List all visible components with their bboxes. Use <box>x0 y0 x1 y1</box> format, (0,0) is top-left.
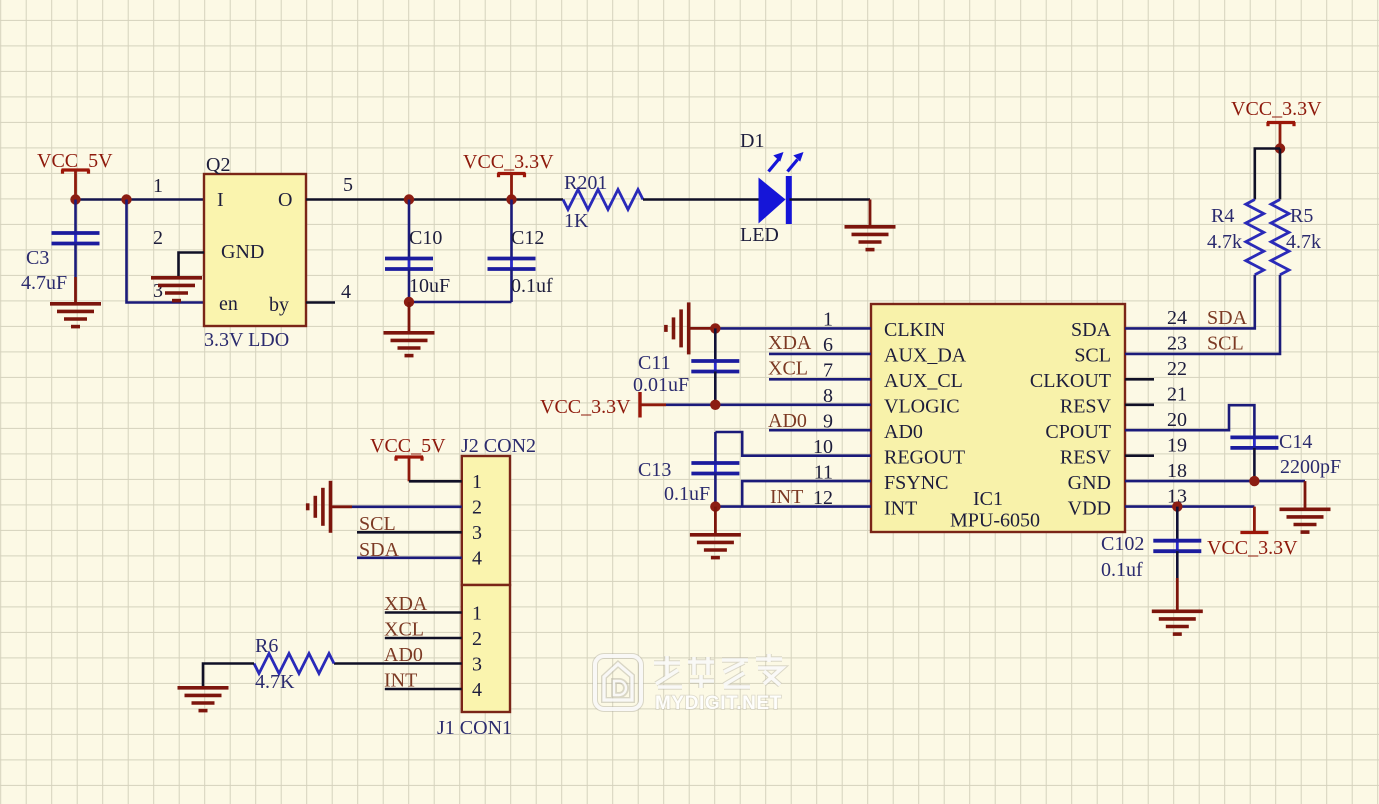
wire J2 pin1 to VCC_5V <box>409 480 462 483</box>
svg-text:AD0: AD0 <box>768 410 807 432</box>
svg-text:VCC_3.3V: VCC_3.3V <box>540 396 631 418</box>
svg-text:10uF: 10uF <box>409 275 450 297</box>
wire IC pin9 AD0 stub <box>769 429 871 432</box>
svg-text:J2 CON2: J2 CON2 <box>461 435 536 457</box>
svg-text:D1: D1 <box>740 130 764 152</box>
svg-text:3: 3 <box>153 280 163 302</box>
wire Q2 pin4 stub (by) <box>306 301 335 304</box>
capacitor C13 <box>638 432 739 507</box>
svg-text:VCC_3.3V: VCC_3.3V <box>1207 537 1298 559</box>
svg-text:REGOUT: REGOUT <box>884 447 965 469</box>
svg-text:INT: INT <box>884 498 917 520</box>
wire R5 bottom to IC pin23 SCL <box>1125 275 1280 354</box>
svg-text:I: I <box>217 189 224 211</box>
svg-text:4.7k: 4.7k <box>1286 231 1321 253</box>
junction node at enable branch <box>121 194 131 204</box>
svg-text:2: 2 <box>472 497 482 519</box>
svg-text:SCL: SCL <box>1207 333 1244 355</box>
svg-text:20: 20 <box>1167 409 1187 431</box>
svg-text:3.3V LDO: 3.3V LDO <box>204 329 289 351</box>
wire R201 to LED anode <box>643 198 759 201</box>
svg-text:MYDIGIT.NET: MYDIGIT.NET <box>655 693 782 714</box>
svg-text:VDD: VDD <box>1068 498 1111 520</box>
power flag VCC_5V (top left) <box>37 150 113 200</box>
svg-text:VCC_3.3V: VCC_3.3V <box>463 151 554 173</box>
svg-text:R4: R4 <box>1211 205 1234 227</box>
svg-text:5: 5 <box>343 174 353 196</box>
svg-text:0.1uf: 0.1uf <box>511 275 553 297</box>
junction node at C3 top <box>70 194 80 204</box>
power flag VCC_3.3V (top right) <box>1231 98 1322 149</box>
junction node at C102 top <box>1172 501 1182 511</box>
svg-text:SDA: SDA <box>1071 319 1112 341</box>
wire Q2 pin5 output rail to R201 <box>306 198 563 201</box>
svg-text:2: 2 <box>153 227 163 249</box>
svg-text:C3: C3 <box>26 247 49 269</box>
svg-text:CPOUT: CPOUT <box>1045 421 1111 443</box>
wire joining C10 and C12 bottoms <box>409 301 512 304</box>
svg-text:J1 CON1: J1 CON1 <box>437 717 512 739</box>
wire R6 left to ground <box>203 664 254 688</box>
wire IC pin20 CPOUT to C14 <box>1125 405 1254 437</box>
svg-text:23: 23 <box>1167 333 1187 355</box>
svg-text:C11: C11 <box>638 352 671 374</box>
svg-text:RESV: RESV <box>1060 396 1112 418</box>
svg-text:C102: C102 <box>1101 533 1144 555</box>
svg-text:Q2: Q2 <box>206 154 230 176</box>
svg-text:LED: LED <box>740 224 779 246</box>
svg-text:4: 4 <box>472 679 482 701</box>
svg-text:4: 4 <box>472 548 482 570</box>
svg-text:RESV: RESV <box>1060 447 1112 469</box>
svg-text:C13: C13 <box>638 459 671 481</box>
power flag VCC_3.3V at VDD (pointing down) <box>1207 507 1298 559</box>
resistor R5 4.7k <box>1271 200 1321 275</box>
ground at Q2 pin2 <box>151 278 202 301</box>
svg-text:1: 1 <box>472 471 482 493</box>
wire J1 pin4 INT <box>385 688 462 691</box>
wire J2 pin3 SCL <box>357 531 462 534</box>
ground at J2 pin2 (sideways) <box>308 481 352 533</box>
svg-text:2200pF: 2200pF <box>1280 456 1341 478</box>
svg-text:CLKIN: CLKIN <box>884 319 945 341</box>
wire IC pin13 VDD <box>1125 505 1254 508</box>
svg-text:VLOGIC: VLOGIC <box>884 396 960 418</box>
ground below R6 <box>178 688 229 711</box>
svg-text:0.1uF: 0.1uF <box>664 483 710 505</box>
svg-text:SCL: SCL <box>1074 345 1111 367</box>
junction node at C11 top <box>710 323 720 333</box>
ground below C13 <box>690 507 741 558</box>
svg-text:1: 1 <box>153 175 163 197</box>
junction node at C11 bottom <box>710 400 720 410</box>
power flag VCC_5V (above J2) <box>370 435 446 481</box>
svg-text:4.7uF: 4.7uF <box>21 272 67 294</box>
svg-text:AUX_DA: AUX_DA <box>884 345 967 367</box>
svg-text:22: 22 <box>1167 358 1187 380</box>
junction node at C10 <box>404 194 414 204</box>
svg-text:2: 2 <box>472 628 482 650</box>
resistor R6 4.7K <box>254 635 334 693</box>
capacitor C11 <box>633 328 739 404</box>
wire IC pin18 GND to ground <box>1125 480 1305 483</box>
IC IC1 MPU-6050 <box>871 304 1125 532</box>
ground right of pin18 <box>1280 481 1331 532</box>
svg-text:en: en <box>219 293 238 315</box>
svg-text:18: 18 <box>1167 460 1187 482</box>
svg-text:SDA: SDA <box>1207 307 1248 329</box>
svg-text:IC1: IC1 <box>973 488 1003 510</box>
wire J1 pin1 XDA <box>385 611 462 614</box>
svg-text:GND: GND <box>1068 472 1111 494</box>
ground below C10 <box>384 302 435 356</box>
power flag VCC_3.3V at VLOGIC (pointing left) <box>540 392 666 418</box>
wire J1 pin3 AD0 from R6 <box>334 662 462 665</box>
capacitor C3 <box>21 200 100 295</box>
watermark logo (mydigit house) <box>595 656 641 709</box>
resistor R201 1K <box>563 172 643 232</box>
svg-text:C10: C10 <box>409 227 442 249</box>
svg-text:by: by <box>269 294 289 316</box>
wire R4 bottom to IC pin24 SDA <box>1125 275 1255 329</box>
wire IC pin1 CLKIN to ground <box>715 327 871 330</box>
svg-text:4.7K: 4.7K <box>255 671 295 693</box>
ground left of IC pin1 (sideways) <box>666 302 715 354</box>
junction node at R4/R5 top <box>1275 143 1285 153</box>
wire J2 pin2 to ground <box>352 505 462 508</box>
wire VCC to R4 top <box>1255 149 1280 200</box>
watermark text 数码之家 <box>654 654 782 688</box>
capacitor C10 <box>385 200 450 303</box>
svg-text:4.7k: 4.7k <box>1207 231 1242 253</box>
svg-text:GND: GND <box>221 241 264 263</box>
wire J1 pin2 XCL <box>385 637 462 640</box>
svg-text:INT: INT <box>770 486 803 508</box>
resistor R4 4.7k <box>1207 200 1264 275</box>
ground below C3 <box>50 277 101 327</box>
wire IC pin19 stub <box>1125 454 1154 457</box>
svg-text:3: 3 <box>472 522 482 544</box>
wire Q2 pin2 to ground <box>179 253 205 278</box>
junction node at C14 bottom <box>1249 476 1259 486</box>
wire J2 pin4 SDA <box>357 556 462 559</box>
svg-text:XDA: XDA <box>768 332 812 354</box>
wire IC pin12 INT to C13 bottom <box>715 505 871 508</box>
svg-text:FSYNC: FSYNC <box>884 472 948 494</box>
svg-text:MPU-6050: MPU-6050 <box>950 510 1040 532</box>
svg-text:AUX_CL: AUX_CL <box>884 370 963 392</box>
wire LED cathode to ground <box>790 198 871 201</box>
svg-text:VCC_5V: VCC_5V <box>370 435 446 457</box>
svg-text:XCL: XCL <box>768 358 808 380</box>
wire IC pin22 stub <box>1125 378 1154 381</box>
power flag VCC_3.3V (above C12) <box>463 151 554 200</box>
svg-text:3: 3 <box>472 654 482 676</box>
wire VCC_5V rail to Q2 pin1 <box>76 198 205 201</box>
capacitor C12 <box>488 200 554 303</box>
svg-text:C14: C14 <box>1279 431 1312 453</box>
ground below C102 <box>1152 578 1203 634</box>
ground right of LED <box>845 200 896 250</box>
LED D1 <box>740 130 804 246</box>
connector J1 CON1 <box>437 585 512 739</box>
svg-text:19: 19 <box>1167 435 1187 457</box>
svg-text:C12: C12 <box>511 227 544 249</box>
wire IC pin8 VLOGIC <box>666 403 871 406</box>
junction node at C10 bottom <box>404 297 414 307</box>
svg-text:CLKOUT: CLKOUT <box>1030 370 1111 392</box>
svg-text:R6: R6 <box>255 635 278 657</box>
svg-text:24: 24 <box>1167 307 1187 329</box>
wire IC pin21 stub <box>1125 403 1154 406</box>
svg-text:0.1uf: 0.1uf <box>1101 559 1143 581</box>
connector J2 CON2 <box>461 435 536 585</box>
wire enable branch: down from rail and right to Q2 pin3 <box>127 200 205 303</box>
wire C13 top elbow to IC pin10 REGOUT <box>715 432 871 456</box>
svg-text:R5: R5 <box>1290 205 1313 227</box>
svg-text:VCC_3.3V: VCC_3.3V <box>1231 98 1322 120</box>
svg-text:21: 21 <box>1167 384 1187 406</box>
svg-text:AD0: AD0 <box>884 421 923 443</box>
capacitor C14 <box>1230 431 1341 481</box>
wire IC pin11 FSYNC elbow down to INT net <box>742 481 871 507</box>
svg-text:1: 1 <box>472 603 482 625</box>
svg-text:1K: 1K <box>564 210 589 232</box>
wire IC pin6 XDA stub <box>769 353 871 356</box>
voltage regulator U Q2 (3.3V LDO) <box>204 154 306 351</box>
svg-text:4: 4 <box>341 281 351 303</box>
wire VCC to R5 top <box>1279 149 1282 200</box>
wire IC pin7 XCL stub <box>769 378 871 381</box>
junction node at C12 / VCC_3.3V <box>506 194 516 204</box>
capacitor C102 <box>1101 507 1201 581</box>
svg-text:O: O <box>278 189 292 211</box>
junction node at C13 bottom <box>710 501 720 511</box>
svg-text:R201: R201 <box>564 172 607 194</box>
